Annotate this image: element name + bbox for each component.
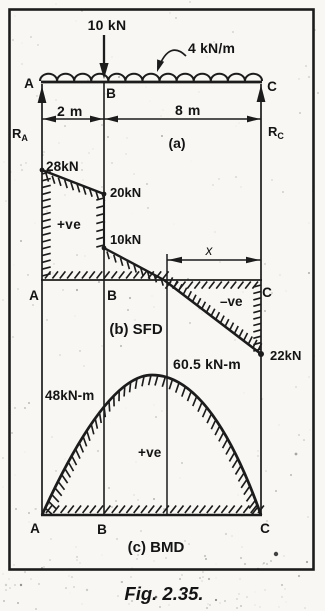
hatching SFD -ve region under baseline [165, 282, 258, 289]
BMD parabola [42, 375, 261, 515]
SFD drop at B 20kN to 10kN [103, 194, 105, 248]
vertical line at max-BM / zero-shear point [166, 254, 168, 515]
SFD line 10kN to zero crossing [104, 248, 164, 280]
SFD baseline A-C [41, 279, 262, 281]
svg-text:B: B [97, 522, 107, 537]
hatching BMD curve right branch [155, 375, 258, 515]
svg-text:C: C [267, 79, 277, 94]
svg-text:10 kN: 10 kN [88, 17, 127, 33]
svg-text:20kN: 20kN [110, 185, 141, 200]
svg-text:A: A [29, 288, 39, 303]
svg-text:22kN: 22kN [270, 348, 301, 363]
SFD vertex dot 10kN at B [102, 246, 107, 251]
beam AC [41, 81, 262, 84]
ink specks [274, 552, 278, 556]
svg-text:10kN: 10kN [110, 232, 141, 247]
support reaction arrow R_C [260, 84, 262, 515]
svg-text:4 kN/m: 4 kN/m [188, 40, 235, 56]
SFD vertex dot 22kN at C [258, 351, 264, 357]
hatching SFD -ve region hypotenuse [169, 277, 262, 350]
hatching SFD +ve region second slope [107, 252, 163, 286]
hatching BMD baseline [46, 506, 264, 514]
svg-text:B: B [106, 86, 116, 101]
svg-text:28kN: 28kN [46, 159, 79, 174]
svg-text:(c) BMD: (c) BMD [128, 539, 185, 556]
svg-text:RA: RA [12, 126, 28, 143]
svg-text:Fig. 2.35.: Fig. 2.35. [124, 583, 203, 604]
pointer arrow for 4 kN/m [159, 50, 187, 68]
svg-text:C: C [262, 285, 272, 300]
dimension line 2 m [42, 118, 104, 120]
svg-text:C: C [260, 521, 270, 536]
svg-text:+ve: +ve [138, 445, 162, 460]
UDL scallops 4 kN/m [40, 74, 262, 81]
hatching SFD -ve region C edge [253, 285, 261, 351]
dimension line 8 m [104, 118, 261, 120]
point load arrow 10 kN at B [103, 35, 105, 72]
support reaction arrow R_A [41, 84, 43, 515]
dimension line x [167, 259, 261, 261]
svg-text:RC: RC [268, 124, 284, 141]
svg-text:A: A [30, 521, 40, 536]
BMD baseline A-C [41, 514, 262, 516]
svg-text:60.5 kN-m: 60.5 kN-m [173, 356, 241, 372]
svg-text:+ve: +ve [57, 217, 81, 232]
SFD vertex dot 28kN at A [40, 168, 45, 173]
svg-text:B: B [107, 288, 117, 303]
hatching SFD +ve region B edge [96, 198, 104, 247]
svg-text:–ve: –ve [220, 294, 243, 309]
SFD line 28kN to 20kN [42, 170, 104, 194]
vertical line through B [103, 82, 105, 515]
svg-text:2 m: 2 m [57, 103, 83, 119]
svg-text:48kN-m: 48kN-m [45, 388, 94, 403]
SFD line zero crossing to -22kN at C [164, 280, 261, 354]
hatching SFD +ve region top slope [46, 174, 105, 202]
hatching BMD curve left branch [45, 375, 151, 515]
svg-text:(b) SFD: (b) SFD [109, 321, 162, 338]
svg-text:(a): (a) [168, 135, 185, 151]
hatching SFD +ve region baseline [45, 271, 169, 278]
hatching SFD +ve region left edge [42, 172, 51, 276]
svg-text:8 m: 8 m [175, 102, 201, 118]
svg-text:A: A [24, 76, 34, 91]
SFD vertex dot 20kN at B [102, 192, 107, 197]
svg-text:x: x [205, 243, 214, 258]
